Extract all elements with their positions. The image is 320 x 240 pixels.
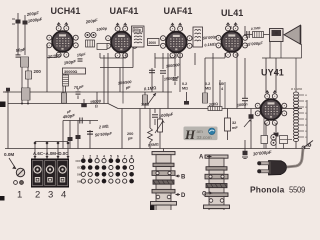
svg-text:2: 2 (89, 155, 91, 159)
svg-text:32: 32 (232, 121, 236, 125)
svg-text:1MΩ: 1MΩ (141, 103, 149, 107)
svg-text:5509: 5509 (289, 186, 305, 195)
svg-text:A: A (199, 155, 204, 161)
svg-text:3: 3 (48, 190, 53, 201)
svg-text:UAF41: UAF41 (164, 6, 193, 16)
svg-text:UY41: UY41 (261, 68, 284, 78)
svg-text:OC: OC (77, 166, 81, 170)
svg-text:Ω: Ω (305, 94, 307, 97)
svg-text:200: 200 (34, 69, 42, 74)
svg-text:mF: mF (232, 126, 238, 130)
svg-text:3: 3 (96, 155, 98, 159)
svg-text:33.com: 33.com (197, 135, 212, 140)
svg-text:pF: pF (128, 137, 133, 141)
svg-text:2000: 2000 (149, 41, 157, 45)
svg-text:0.2: 0.2 (205, 82, 210, 86)
svg-text:C: C (202, 192, 207, 198)
svg-text:A.6C–A.0M–D.0C: A.6C–A.0M–D.0C (33, 151, 69, 156)
svg-text:MΩ: MΩ (205, 87, 211, 91)
svg-text:200: 200 (127, 132, 133, 136)
svg-text:OCF: OCF (76, 159, 82, 163)
svg-text:4: 4 (103, 155, 105, 159)
svg-text:UCH41: UCH41 (51, 6, 81, 16)
svg-text:MΩ: MΩ (182, 87, 188, 91)
svg-text:OM: OM (77, 179, 81, 183)
svg-text:am: am (197, 129, 204, 134)
svg-text:6: 6 (117, 155, 119, 159)
svg-text:0.2: 0.2 (182, 82, 187, 86)
svg-text:UAF41: UAF41 (110, 6, 139, 16)
svg-text:4: 4 (61, 190, 66, 201)
svg-text:D: D (181, 193, 186, 199)
svg-text:200p: 200p (134, 28, 141, 32)
svg-text:B: B (181, 175, 186, 181)
svg-text:UL41: UL41 (221, 8, 243, 18)
svg-text:1: 1 (82, 155, 84, 159)
svg-text:Ω: Ω (95, 104, 98, 108)
svg-text:1: 1 (17, 190, 22, 201)
svg-text:2: 2 (35, 190, 40, 201)
svg-text:Phonola: Phonola (250, 185, 285, 195)
svg-text:5: 5 (110, 155, 112, 159)
svg-text:Ω 1Ω/2Ω: Ω 1Ω/2Ω (291, 87, 303, 91)
svg-text:30000Ω: 30000Ω (64, 70, 78, 74)
svg-text:7: 7 (124, 155, 126, 159)
svg-text:H: H (184, 127, 196, 142)
svg-text:OM: OM (77, 173, 81, 177)
svg-text:8: 8 (131, 155, 133, 159)
svg-text:0.0M: 0.0M (4, 152, 14, 157)
